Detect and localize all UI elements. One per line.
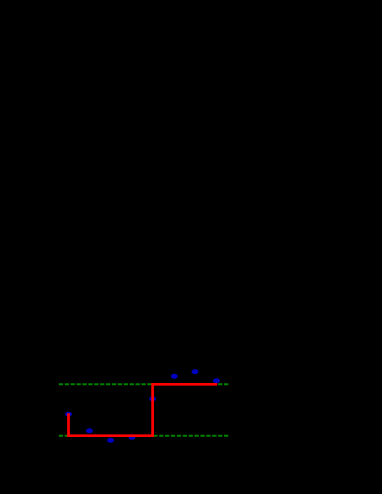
lower green dashed level line: [59, 435, 229, 437]
blue data point 1: [65, 412, 72, 417]
blue data point 8: [213, 378, 220, 383]
blue data point 6: [171, 374, 178, 379]
blue data point 4: [129, 435, 136, 440]
upper green dashed level line: [59, 383, 229, 385]
blue data point 3: [107, 438, 114, 443]
blue data point 7: [192, 369, 199, 374]
red step fit line: [69, 384, 218, 435]
blue data point 5: [149, 396, 156, 401]
blue data point 2: [86, 428, 93, 433]
